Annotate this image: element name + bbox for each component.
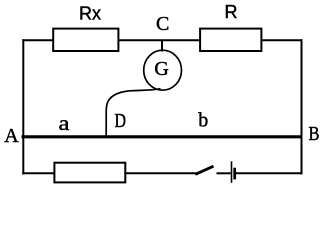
wire top right (R to right corner) <box>260 39 302 41</box>
wire bottom left (corner to bottom resistor) <box>22 172 55 174</box>
svg-text:C: C <box>156 13 169 35</box>
wire bottom middle (resistor to switch) <box>124 172 196 174</box>
wire left vertical (top corner down to bottom corner) <box>22 39 24 174</box>
battery (cell: long thin plate + short thick plate) <box>232 161 235 183</box>
slide wire A-B (thick) <box>22 135 303 138</box>
wire top middle (Rx to R through node C) <box>118 39 200 41</box>
svg-text:b: b <box>198 110 208 132</box>
segment label a <box>59 113 70 135</box>
galvanometer G <box>144 50 182 90</box>
wire right vertical (top corner down to bottom corner, through B) <box>301 39 303 174</box>
svg-text:A: A <box>4 125 19 147</box>
node D label <box>115 110 127 132</box>
wire C stub down to galvanometer <box>161 40 163 51</box>
wire top-left (corner A-branch to Rx) <box>22 39 53 41</box>
svg-text:R: R <box>225 2 238 22</box>
svg-text:G: G <box>154 58 168 80</box>
svg-text:B: B <box>309 123 320 145</box>
node B label <box>309 123 320 145</box>
wire switch to battery <box>217 172 231 174</box>
switch S (open knife switch) <box>195 166 214 175</box>
node A label <box>4 125 19 147</box>
resistor Rx <box>53 3 118 51</box>
wire battery to bottom right corner <box>236 172 303 174</box>
node C label <box>156 13 169 35</box>
resistor (bottom, unlabeled rheostat) <box>54 163 125 183</box>
svg-text:D: D <box>115 110 127 132</box>
svg-text:a: a <box>59 113 70 135</box>
segment label b <box>198 110 208 132</box>
svg-text:Rx: Rx <box>79 3 101 23</box>
wire galvanometer lead curve down to jockey D <box>106 89 160 136</box>
resistor R <box>200 2 261 51</box>
